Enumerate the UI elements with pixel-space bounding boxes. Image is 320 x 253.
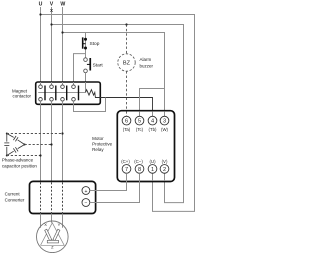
svg-text:Converter: Converter [5, 198, 25, 203]
wire stop branch from W bus [85, 33, 87, 58]
wire pole lead stubs inside contactor [41, 82, 86, 92]
wire pole3 bottom to converter [62, 101, 64, 182]
magnet contactor box [36, 82, 101, 104]
junction dot buzzer tap [125, 23, 127, 25]
svg-text:contactor: contactor [13, 93, 32, 98]
svg-text:BZ: BZ [123, 60, 131, 66]
svg-text:Current: Current [5, 192, 21, 197]
wire dashed Ta stub inside relay [126, 111, 128, 116]
svg-text:V: V [50, 2, 54, 8]
svg-text:8: 8 [138, 167, 141, 173]
svg-text:(Ta): (Ta) [123, 127, 131, 132]
contactor coil zigzag [86, 90, 153, 117]
motor winding bottom [47, 240, 58, 243]
svg-text:Protective: Protective [92, 142, 113, 147]
converter output plus [82, 187, 90, 195]
wire dashed buzzer to Ta [126, 71, 128, 116]
svg-text:(U): (U) [149, 159, 156, 164]
mechanical link bar [38, 91, 85, 93]
wire plus to C+ [90, 173, 127, 190]
svg-text:3: 3 [163, 119, 166, 125]
svg-text:(Tb): (Tb) [149, 127, 158, 132]
svg-text:Relay: Relay [92, 147, 104, 152]
wire holding branch tee [74, 54, 86, 85]
svg-text:6: 6 [125, 119, 128, 125]
wire U horizontal bus [41, 15, 195, 212]
junction dots capacitor taps [61, 132, 63, 134]
svg-text:Motor: Motor [92, 136, 104, 141]
svg-text:(W): (W) [161, 127, 169, 132]
wire dashed buzzer feed [126, 25, 128, 54]
contactor pole 2 [50, 85, 57, 101]
motor circle [37, 221, 69, 253]
current converter box [30, 181, 96, 213]
alarm buzzer BZ [118, 54, 135, 71]
capacitor vertex dots [6, 133, 8, 135]
motor delta outline [41, 223, 65, 246]
motor winding Y-Z [53, 229, 60, 240]
svg-text:Stop: Stop [90, 41, 100, 47]
relay terminal 8 [134, 159, 144, 173]
svg-text:(Tc): (Tc) [136, 127, 144, 132]
svg-text:5: 5 [138, 119, 141, 125]
svg-text:Start: Start [93, 62, 104, 68]
wire W to motor [62, 213, 64, 227]
wire terminal lead stubs inside relay [140, 111, 165, 181]
relay terminal 3 [160, 116, 169, 132]
dashed V through converter [51, 182, 53, 212]
relay terminal 1 [148, 159, 157, 173]
dashed W through converter [62, 182, 64, 212]
wire W horizontal bus [63, 33, 165, 117]
relay terminal 2 [160, 159, 169, 173]
start pushbutton (NO) [84, 58, 91, 73]
wire dashed capacitor to W [7, 133, 63, 135]
contactor pole 4 holding contact [72, 85, 80, 101]
relay terminal 7 [121, 159, 131, 173]
wire start to coil [85, 73, 87, 93]
junction dot V [50, 23, 52, 25]
converter output minus [82, 199, 90, 207]
relay terminal 6 [122, 116, 131, 132]
wire minus to C- [90, 173, 140, 202]
svg-text:4: 4 [151, 119, 154, 125]
wire V to motor [51, 213, 53, 222]
wire Tc to W drop [140, 89, 165, 117]
dashed U through converter [40, 182, 42, 212]
svg-text:U: U [39, 2, 43, 8]
svg-text:buzzer: buzzer [140, 63, 154, 68]
wire W vertical [62, 7, 64, 85]
junction dot U [39, 13, 41, 15]
motor winding X-Z [45, 229, 52, 240]
contactor pole 1 [39, 85, 46, 101]
contactor pole 3 [61, 85, 68, 101]
wire V vertical [51, 7, 53, 85]
motor protective relay box [117, 111, 174, 182]
svg-text:2: 2 [163, 167, 166, 173]
wire V horizontal bus [52, 25, 184, 203]
svg-text:+: + [84, 189, 87, 195]
svg-text:Y: Y [58, 222, 61, 227]
svg-text:capacitor position: capacitor position [2, 164, 38, 169]
wire U vertical [40, 7, 42, 85]
relay terminal 5 [135, 116, 144, 132]
svg-text:x: x [50, 8, 53, 14]
wire U to motor [40, 213, 42, 227]
wire pole1 bottom to converter [40, 101, 42, 182]
svg-text:−: − [84, 200, 87, 206]
phase-advance capacitor delta [4, 134, 24, 156]
junction dot W [61, 31, 63, 33]
svg-text:X: X [44, 222, 47, 227]
stop pushbutton (NC) [82, 37, 87, 49]
wire pole2 bottom to converter [51, 101, 53, 182]
svg-text:Phase-advance: Phase-advance [2, 157, 34, 162]
relay terminal 4 [148, 116, 157, 132]
svg-text:(C+): (C+) [121, 159, 130, 164]
svg-text:7: 7 [125, 167, 128, 173]
wire pole4 bottom jog [74, 98, 106, 112]
svg-text:(V): (V) [162, 159, 168, 164]
svg-text:Alarm: Alarm [140, 57, 152, 62]
svg-text:1: 1 [151, 167, 154, 173]
svg-text:(C−): (C−) [134, 159, 143, 164]
wire dashed capacitor to U [7, 155, 41, 157]
svg-text:W: W [60, 2, 65, 8]
wire dashed capacitor to V [25, 144, 52, 146]
